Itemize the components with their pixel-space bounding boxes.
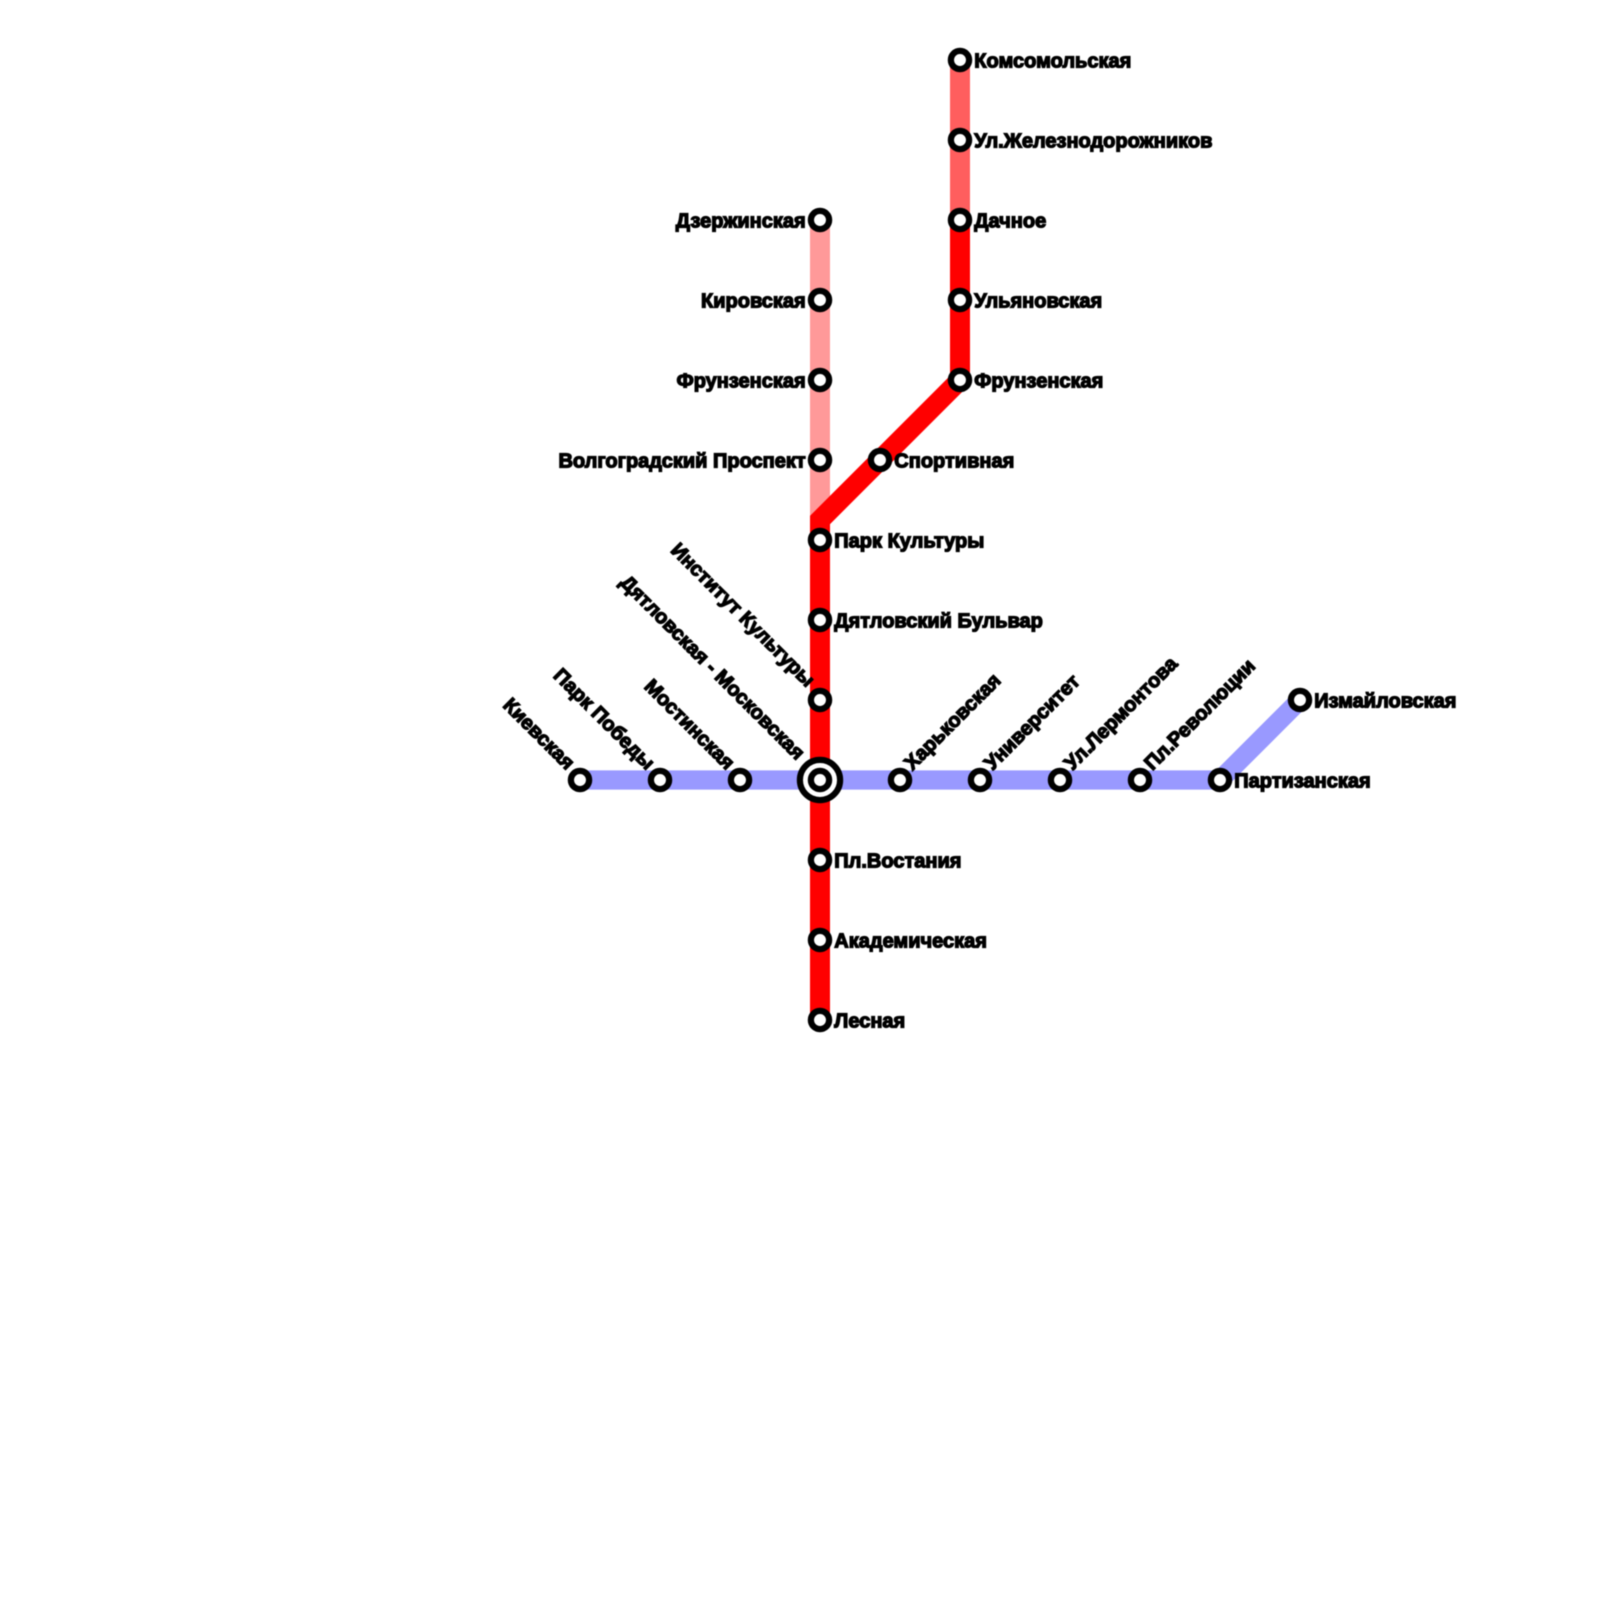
svg-text:Лесная: Лесная — [834, 1011, 905, 1033]
svg-text:Комсомольская: Комсомольская — [974, 51, 1131, 73]
svg-text:Фрунзенская: Фрунзенская — [974, 371, 1103, 393]
svg-text:Ул.Железнодорожников: Ул.Железнодорожников — [974, 131, 1212, 153]
svg-text:Партизанская: Партизанская — [1234, 771, 1370, 793]
svg-text:Дзержинская: Дзержинская — [676, 211, 806, 233]
svg-text:Кировская: Кировская — [701, 291, 806, 313]
svg-text:Спортивная: Спортивная — [894, 451, 1014, 473]
svg-text:Дятловский Бульвар: Дятловский Бульвар — [834, 611, 1043, 633]
svg-text:Волгоградский Проспект: Волгоградский Проспект — [558, 451, 805, 473]
svg-text:Дачное: Дачное — [974, 211, 1046, 233]
svg-text:Ульяновская: Ульяновская — [974, 291, 1102, 313]
svg-text:Парк Культуры: Парк Культуры — [834, 531, 984, 553]
svg-text:Фрунзенская: Фрунзенская — [677, 371, 806, 393]
svg-text:Пл.Востания: Пл.Востания — [834, 851, 961, 873]
svg-text:Измайловская: Измайловская — [1314, 691, 1456, 713]
svg-text:Академическая: Академическая — [834, 931, 987, 953]
